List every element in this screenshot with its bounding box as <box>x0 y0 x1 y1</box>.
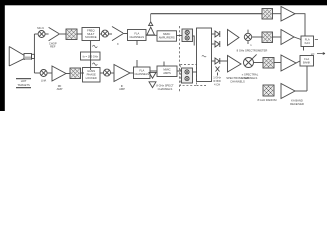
svg-text:MMIC: MMIC <box>163 32 170 36</box>
svg-text:SOURCE: SOURCE <box>85 35 97 39</box>
mixer osc C <box>244 54 257 67</box>
mixer M1 <box>38 31 45 38</box>
amplifier chain C <box>281 55 296 71</box>
wire <box>77 33 82 35</box>
box gunn osc lower <box>83 68 101 83</box>
dashed line extension <box>197 84 207 86</box>
svg-text:8 GHz SPECT: 8 GHz SPECT <box>156 84 174 88</box>
squiggle lower <box>93 63 98 65</box>
diode D1 <box>212 31 220 37</box>
isolator chain D <box>263 85 274 96</box>
wire <box>130 72 134 74</box>
wire <box>100 33 102 35</box>
wire joining vertical <box>295 90 307 92</box>
box mmic B1b <box>157 31 177 41</box>
wire <box>100 72 104 74</box>
wire <box>273 13 282 15</box>
svg-text:BANK: BANK <box>303 61 311 65</box>
diode D3 <box>212 58 228 64</box>
svg-text:FLA: FLA <box>304 57 309 61</box>
box IF amp lower <box>134 67 151 79</box>
cross mark <box>216 67 220 76</box>
wire <box>274 62 281 64</box>
wire <box>47 72 52 74</box>
amplifier A4 <box>114 65 130 82</box>
wire <box>294 37 301 40</box>
box MMIC B5 <box>157 66 177 77</box>
svg-text:fo = 183 GHz: fo = 183 GHz <box>83 54 99 58</box>
svg-text:CHANNELS: CHANNELS <box>134 72 149 76</box>
wire under up-amp <box>146 34 157 36</box>
svg-text:FLA: FLA <box>305 37 310 41</box>
wire down from box C <box>306 66 308 91</box>
svg-text:FLA: FLA <box>139 69 144 73</box>
wire <box>273 36 282 38</box>
wire to box <box>296 61 300 63</box>
horn antenna <box>9 47 34 67</box>
svg-text:MMIC: MMIC <box>163 68 170 72</box>
isolator chain B <box>262 32 273 43</box>
svg-text:IF BW: IF BW <box>213 79 221 83</box>
stub below IF box <box>136 41 138 46</box>
box freq mult source <box>82 28 100 41</box>
switch S2 <box>112 27 123 41</box>
mixer M3 <box>40 70 47 77</box>
svg-text:LOCKED: LOCKED <box>86 76 97 80</box>
dashed box around lower hatch <box>180 65 196 86</box>
svg-text:AMPS: AMPS <box>163 71 171 75</box>
scan border top <box>0 0 327 5</box>
wire <box>45 33 49 35</box>
amplifier A6 <box>228 56 242 73</box>
isolator chain A <box>262 9 273 20</box>
arrowhead above A1 <box>149 22 153 26</box>
filter tap F2 <box>149 82 156 88</box>
wire to mixer M3 <box>34 72 40 74</box>
diode D2 <box>212 41 220 47</box>
svg-text:X: X <box>117 42 119 46</box>
svg-text:1 GHz: 1 GHz <box>213 76 221 80</box>
svg-text:TARGETS: TARGETS <box>17 83 30 87</box>
svg-text:8 GHz RADIOM: 8 GHz RADIOM <box>257 98 277 102</box>
svg-text:4 CH: 4 CH <box>214 82 220 86</box>
box KA radiometer <box>301 36 314 47</box>
svg-text:AMP: AMP <box>119 87 125 91</box>
dash right of box <box>315 39 318 41</box>
svg-text:AMP: AMP <box>57 87 63 91</box>
box fo=183GHz <box>81 52 101 60</box>
wire up from A1 <box>150 14 152 22</box>
wire <box>81 72 85 74</box>
svg-text:REF: REF <box>50 45 56 49</box>
amplifier up A1 <box>147 27 155 35</box>
vertical link synth column <box>90 41 92 71</box>
amplifier chain B <box>281 30 294 45</box>
svg-text:CHANNELS: CHANNELS <box>230 80 245 84</box>
wire <box>59 33 66 35</box>
stub above B5 <box>163 62 165 67</box>
dashed divider <box>179 26 181 92</box>
mixer osc B <box>244 33 251 40</box>
svg-text:RECEIVER: RECEIVER <box>290 102 304 106</box>
svg-text:CHANNELS: CHANNELS <box>243 76 258 80</box>
wire B5 to hatch <box>177 70 183 72</box>
svg-text:LO: LO <box>311 52 315 56</box>
wire <box>123 33 128 35</box>
wire hatch top output down stub <box>193 36 195 46</box>
hatch box top (dual mixer) <box>182 29 193 42</box>
switch S1 (chopper) <box>49 27 59 40</box>
amplifier chain D <box>281 84 295 99</box>
wire <box>111 72 115 74</box>
svg-text:n SPECTRAL: n SPECTRAL <box>242 72 259 76</box>
wire to mixer M1 <box>34 33 38 35</box>
amplifier chain A <box>281 7 295 22</box>
mixer M2 <box>102 30 109 37</box>
amplifier A3 <box>52 66 66 81</box>
wire <box>254 62 264 64</box>
svg-text:LNA: LNA <box>41 79 46 83</box>
wire B1b to hatch <box>177 35 183 37</box>
LO arrow <box>317 53 325 55</box>
wire <box>150 70 157 72</box>
stub above mixer B <box>247 30 249 34</box>
wire <box>109 33 113 35</box>
wire <box>66 73 70 75</box>
isolator chain C <box>263 58 274 69</box>
box IF amp top <box>128 30 147 41</box>
squiggle upper <box>93 45 98 47</box>
wire <box>252 36 262 38</box>
wire lower hatch to tall box <box>193 71 197 73</box>
mixer M4 <box>104 69 111 76</box>
wire main vertical <box>33 34 35 73</box>
svg-text:KA3: KA3 <box>305 41 311 45</box>
svg-text:AMPLIFIERS: AMPLIFIERS <box>159 35 175 39</box>
tall box spectrometer <box>197 28 212 82</box>
amplifier A5 <box>228 30 240 46</box>
hatch box lower (dual mixer) <box>182 68 193 83</box>
svg-text:FLA: FLA <box>134 31 139 35</box>
scan border left <box>0 0 5 111</box>
stub below box <box>303 47 305 51</box>
stub above lower IF box <box>136 60 138 67</box>
stub below mixer B <box>247 41 249 44</box>
svg-text:CHANNELS: CHANNELS <box>158 87 173 91</box>
box filter bank C <box>300 56 314 67</box>
svg-text:HOT: HOT <box>21 79 27 83</box>
svg-text:KA BAND: KA BAND <box>291 98 303 102</box>
isolator X2 <box>70 68 81 79</box>
filter tap F1 <box>149 72 156 78</box>
svg-text:MC-9: MC-9 <box>37 26 44 30</box>
cal target rules <box>16 79 31 88</box>
svg-text:CHANNELS: CHANNELS <box>129 35 144 39</box>
isolator X1 <box>66 29 77 40</box>
wire right and down <box>295 14 305 36</box>
tilde inside tall box <box>202 56 206 57</box>
svg-text:PHASE: PHASE <box>87 72 96 76</box>
svg-text:GUNN: GUNN <box>87 69 95 73</box>
svg-text:8 GHz SPECTROMETER: 8 GHz SPECTROMETER <box>237 49 268 53</box>
wire top long <box>151 13 262 15</box>
